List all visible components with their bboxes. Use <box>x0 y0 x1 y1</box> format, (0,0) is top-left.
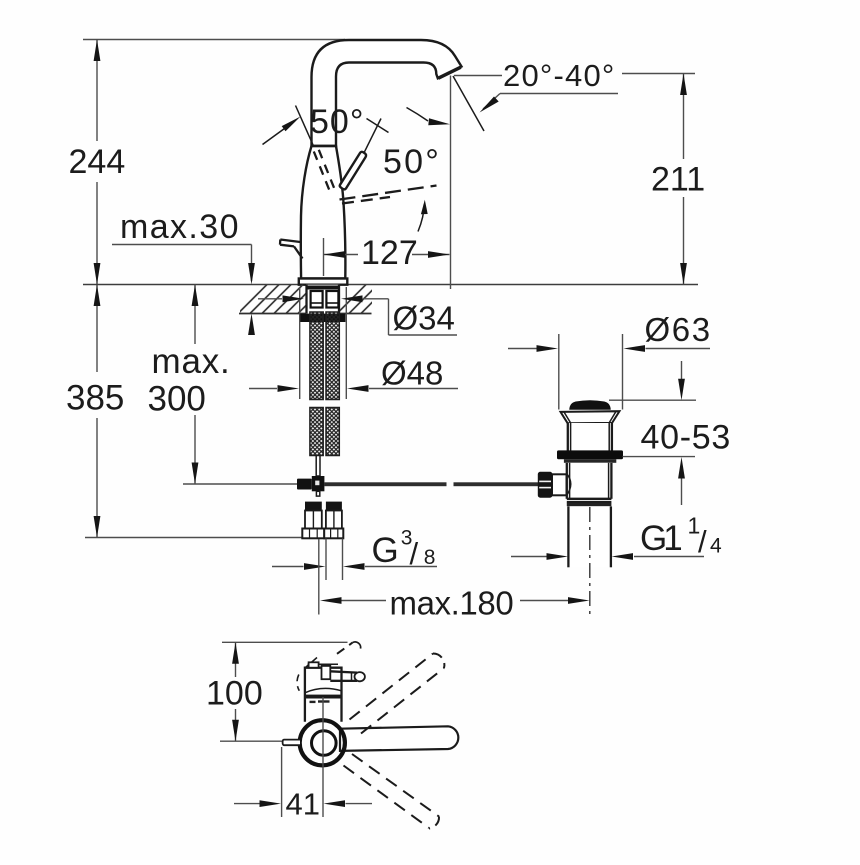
plan spout dashed upper <box>337 642 444 734</box>
leader arrow 50 upper <box>263 106 314 147</box>
shank <box>306 285 340 314</box>
svg-text:4: 4 <box>710 535 722 558</box>
base plate <box>299 279 348 285</box>
drain tailpipe <box>570 506 610 567</box>
svg-text:8: 8 <box>424 546 436 569</box>
dimension 20-40 leaders <box>453 76 618 132</box>
hose nuts in shank <box>311 291 323 308</box>
faucet spout <box>312 40 462 146</box>
drain funnel rim <box>561 411 620 423</box>
hose-end reference line <box>85 537 343 539</box>
plan left stub <box>283 740 300 746</box>
supply hoses lower <box>310 408 323 456</box>
dimension 40-53 <box>609 361 696 505</box>
pop-up tee <box>312 476 325 491</box>
deck hatch left <box>238 285 327 314</box>
drain side port collar <box>552 474 567 495</box>
svg-text:211: 211 <box>651 161 705 199</box>
hose end fitting right <box>324 502 343 539</box>
svg-text:G1: G1 <box>640 519 681 558</box>
faucet body <box>301 146 346 279</box>
deck surface line <box>83 284 698 286</box>
handle lever raised <box>340 152 366 190</box>
supply hoses upper <box>310 312 323 400</box>
dia34 dimension <box>258 295 457 335</box>
dia48 dimension <box>249 385 458 392</box>
drain body joint band <box>567 498 612 500</box>
dimension max.30 leader <box>112 245 255 336</box>
plan lever base <box>322 666 331 679</box>
handle lever closed <box>280 240 303 259</box>
svg-text:100: 100 <box>206 675 263 713</box>
neck joint line <box>312 145 337 147</box>
svg-text:Ø34: Ø34 <box>393 300 455 337</box>
lever closed dashed position <box>314 150 335 191</box>
svg-text:41: 41 <box>286 787 320 822</box>
dia63 dimension <box>508 334 710 410</box>
drain neck <box>568 423 612 451</box>
svg-text:50°: 50° <box>383 143 441 181</box>
plan swivel circles <box>312 731 337 756</box>
aerator dashed axis <box>340 186 437 204</box>
dimension 211 line <box>622 74 695 285</box>
spout outlet extension line <box>450 76 452 290</box>
label G 3/8 <box>372 527 436 572</box>
drain flange seal <box>557 450 623 459</box>
dimension 127 line <box>324 238 450 276</box>
svg-text:50°: 50° <box>310 103 364 141</box>
plan dashed arc left <box>297 675 299 691</box>
lever extension line and X mark <box>364 119 381 153</box>
mounting nut <box>300 314 345 322</box>
svg-text:/: / <box>698 524 707 559</box>
svg-text:max.180: max.180 <box>390 585 514 622</box>
svg-text:385: 385 <box>66 379 124 418</box>
plan lever arm <box>330 671 365 681</box>
G38 dimension <box>272 539 437 581</box>
svg-text:20°-40°: 20°-40° <box>503 58 615 93</box>
plan body <box>305 668 342 722</box>
svg-text:G: G <box>372 531 399 570</box>
arc arrow to aerator axis <box>418 200 428 232</box>
spout outlet face <box>438 67 461 78</box>
dimension 100 <box>232 642 239 741</box>
svg-text:244: 244 <box>69 143 126 181</box>
hose end fitting left <box>302 502 324 539</box>
plan top extension line <box>222 641 348 643</box>
svg-text:127: 127 <box>361 234 418 272</box>
dimension max.300 line <box>183 285 297 485</box>
plan spout solid position <box>340 726 458 751</box>
label G1 1/4 <box>640 513 722 560</box>
plan center line <box>322 697 324 817</box>
dimension 41 <box>234 747 372 817</box>
arc arrow to spout line <box>407 108 451 126</box>
pop-up rod stub below tee <box>316 491 319 496</box>
dimension 244 line <box>94 40 101 285</box>
drain centerline <box>589 507 591 616</box>
svg-text:max.30: max.30 <box>120 208 240 246</box>
plan body mid joint <box>305 688 342 692</box>
plan bottom extension line <box>220 740 284 742</box>
svg-text:Ø63: Ø63 <box>645 311 712 348</box>
svg-text:max.: max. <box>152 342 231 381</box>
drain body tube <box>566 463 612 499</box>
pop-up left knob <box>297 479 312 490</box>
svg-text:/: / <box>410 536 419 571</box>
dimension G1 1/4 <box>511 553 704 560</box>
svg-text:40-53: 40-53 <box>641 419 731 457</box>
dimension 385 line <box>94 285 101 538</box>
svg-text:300: 300 <box>148 380 206 419</box>
deck hatch right <box>337 285 390 314</box>
wire top extension line <box>83 39 345 41</box>
deck bottom line <box>239 313 372 315</box>
drain plug cap <box>570 401 610 410</box>
horizontal pop-up rod <box>324 482 446 486</box>
max180 dimension <box>319 539 590 615</box>
dia48 extension lines <box>299 287 301 399</box>
plan spout dashed lower <box>344 754 440 829</box>
drain knurled knob <box>538 472 553 498</box>
pop-up rod upper <box>316 456 320 477</box>
svg-text:Ø48: Ø48 <box>381 355 443 392</box>
